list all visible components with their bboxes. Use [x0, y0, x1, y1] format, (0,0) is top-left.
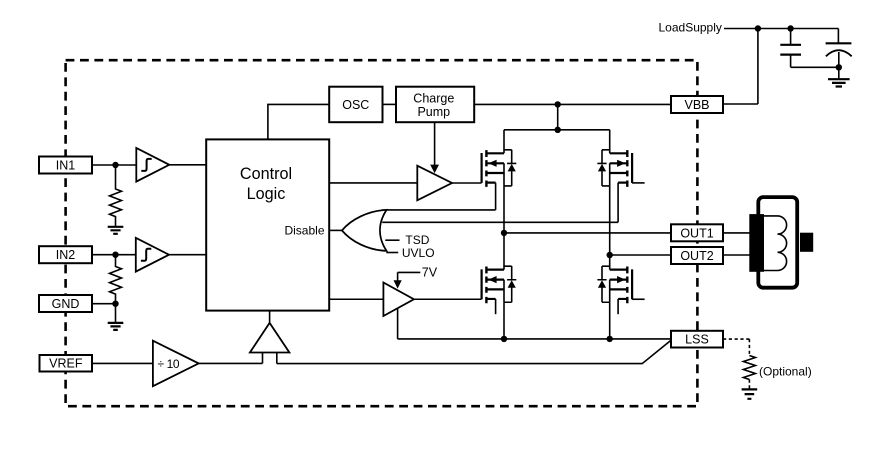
wire bridge supply branch	[504, 104, 610, 129]
svg-text:IN2: IN2	[56, 248, 76, 262]
wire C1 bottom to C2 bottom	[791, 66, 839, 68]
wire Q3 drain to OUT1	[503, 233, 505, 267]
pin box OUT1	[671, 224, 723, 241]
wire LoadSupply rail	[724, 28, 838, 30]
svg-text:OSC: OSC	[342, 98, 369, 112]
wire Q4 source stub	[617, 299, 619, 314]
wire U5 output to U4	[199, 362, 263, 364]
capacitor C1	[790, 29, 792, 68]
body diode D4	[597, 266, 609, 302]
wire Q2 gate stub	[632, 182, 645, 184]
pin box OUT2	[671, 247, 723, 264]
wire Q3 source stub	[495, 299, 497, 314]
comparator U4	[250, 323, 290, 353]
junction dot GND	[112, 301, 118, 307]
ground below C2	[838, 67, 840, 79]
wire U2 output to Q1 gate	[452, 182, 482, 184]
node OUT2 wire	[610, 254, 671, 256]
svg-text:Control: Control	[240, 165, 292, 183]
IC package dashed boundary	[66, 60, 698, 406]
motor load	[749, 197, 813, 288]
capacitor C2 (polarized)	[837, 29, 839, 68]
junction dot VBB rail	[555, 101, 561, 107]
svg-text:VBB: VBB	[684, 98, 709, 112]
pin box IN1	[39, 157, 92, 174]
body diode D2	[597, 150, 609, 186]
junction dot LSS right	[607, 336, 613, 342]
svg-text:TSD: TSD	[405, 233, 429, 247]
transistor Q2 (high side right)	[597, 150, 632, 187]
svg-text:LSS: LSS	[685, 333, 709, 347]
OSC block	[329, 87, 382, 123]
wire Control Logic to gate driver U2	[329, 182, 417, 184]
wire LSS to optional resistor (dashed)	[723, 338, 749, 340]
junction dot LSS left	[501, 336, 507, 342]
wire OSC to Charge Pump	[383, 103, 397, 105]
wire UVLO input stub	[386, 252, 398, 254]
junction dot OUT2	[607, 252, 613, 258]
wire Q4 substrate to LSS rail	[609, 302, 611, 339]
body diode D3	[504, 266, 516, 302]
wire charge pump arrow into U2	[434, 122, 436, 166]
op-amp divide-by-10 U5	[153, 341, 199, 387]
svg-text:Charge: Charge	[413, 91, 454, 105]
wire IN2 to node	[92, 254, 136, 256]
pin box GND	[39, 295, 92, 312]
pin box VREF	[40, 355, 93, 372]
node OUT1 wire	[504, 232, 671, 234]
svg-text:LoadSupply: LoadSupply	[659, 21, 722, 35]
svg-text:(Optional): (Optional)	[759, 364, 812, 378]
comparator U4 output to Control Logic	[269, 311, 271, 323]
wire LSS rail riser to U3	[397, 308, 399, 339]
wire Q3 substrate to LSS rail	[503, 302, 505, 339]
op-amp gate driver U3	[383, 283, 414, 317]
resistor R3 optional sense	[743, 356, 755, 380]
svg-text:OUT2: OUT2	[680, 249, 713, 263]
wire Q2 substrate to OUT2 node	[609, 186, 611, 255]
transistor Q3 (low side left)	[482, 266, 517, 303]
pin box LSS	[671, 331, 723, 348]
resistor R2 pulldown	[110, 255, 122, 304]
wire 7V supply arrow into U3	[398, 272, 421, 280]
svg-text:Disable: Disable	[284, 224, 324, 238]
wire U3 output to Q3 gate	[414, 298, 482, 300]
wire U4 input legs	[263, 353, 277, 364]
ground below R3	[742, 389, 758, 398]
wire OUT2 to motor	[723, 254, 751, 256]
wire VREF to divider	[92, 362, 153, 364]
junction dot LoadSupply/VBB	[755, 25, 761, 31]
pin box VBB	[671, 96, 723, 113]
wire ST2 to Control Logic	[169, 254, 206, 256]
transistor Q4 (low side right)	[597, 266, 632, 303]
wire IN1 to node	[92, 164, 136, 166]
ground below GND node	[115, 304, 117, 323]
wire LSS rail	[398, 338, 671, 340]
svg-text:Pump: Pump	[417, 105, 450, 119]
Charge Pump block	[396, 87, 474, 123]
schmitt trigger ST2	[136, 238, 169, 272]
junction dot LoadSupply/C1	[787, 25, 793, 31]
svg-text:7V: 7V	[422, 266, 438, 280]
junction dot bridge supply	[555, 127, 561, 133]
svg-text:GND: GND	[52, 297, 80, 311]
motor winding coil	[764, 216, 778, 271]
wire current sense line to LSS	[277, 340, 671, 363]
pin box IN2	[39, 246, 92, 263]
junction dot OUT1	[501, 230, 507, 236]
ground below R1	[108, 227, 124, 234]
wire Q4 gate stub	[632, 298, 645, 300]
transistor Q1 (high side left)	[482, 150, 517, 187]
wire VBB riser to LoadSupply	[723, 29, 758, 105]
body diode D1	[504, 150, 516, 186]
OR gate fault logic	[342, 210, 387, 251]
op-amp gate driver U2	[417, 166, 452, 201]
wire OSC feed from Control Logic	[268, 104, 329, 139]
wire TSD input stub	[385, 239, 399, 241]
wire Q2 source sense to OR gate	[382, 183, 618, 223]
wire Charge Pump to VBB	[474, 103, 671, 105]
svg-text:OUT1: OUT1	[680, 226, 713, 240]
resistor R1 pulldown	[110, 165, 122, 227]
svg-text:VREF: VREF	[49, 357, 83, 371]
schmitt trigger ST1	[136, 148, 169, 182]
Control Logic block	[206, 139, 329, 310]
wire Q1 source sense to OR gate	[387, 183, 496, 210]
wire Q1 substrate to OUT1 node	[503, 186, 505, 233]
wire Q1 drain to supply	[503, 130, 505, 150]
wire OUT1 to motor	[723, 232, 751, 234]
junction dot IN1	[112, 162, 118, 168]
wire ST1 to Control Logic	[169, 164, 206, 166]
wire OR output to Disable	[329, 229, 342, 231]
svg-text:UVLO: UVLO	[402, 246, 435, 260]
wire Q2 drain to supply	[609, 130, 611, 150]
svg-text:÷ 10: ÷ 10	[158, 357, 180, 371]
svg-text:Logic: Logic	[247, 185, 286, 203]
wire Control Logic to gate driver U3	[329, 298, 383, 300]
junction dot C2 bottom	[836, 64, 842, 70]
wire GND pin to node	[92, 303, 116, 305]
svg-text:IN1: IN1	[56, 159, 76, 173]
wire Q4 drain to OUT2	[609, 255, 611, 266]
junction dot IN2	[112, 252, 118, 258]
